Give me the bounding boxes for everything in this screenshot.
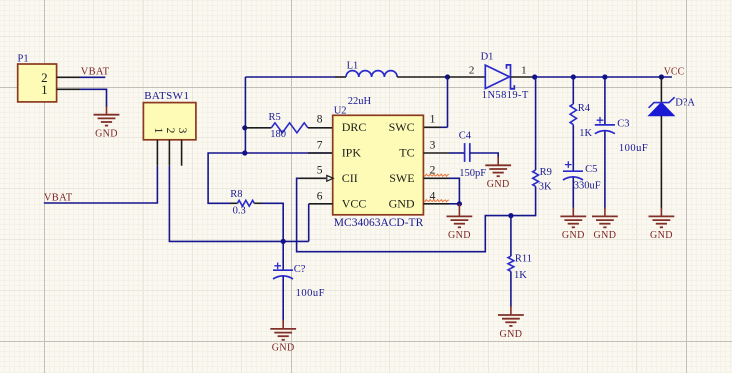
svg-text:1K: 1K	[514, 270, 527, 281]
wire left rail vertical	[244, 77, 246, 153]
svg-text:U2: U2	[334, 105, 347, 116]
wire net VBAT to BATSW1 pin 1	[44, 166, 157, 203]
svg-text:GND: GND	[95, 129, 118, 140]
svg-text:7: 7	[317, 139, 323, 151]
svg-text:8: 8	[317, 114, 323, 126]
svg-text:P1: P1	[18, 54, 29, 65]
svg-text:SWC: SWC	[389, 120, 415, 134]
no-ERC squiggle on pin 2	[424, 174, 449, 176]
svg-text:1: 1	[41, 82, 48, 97]
wire VCC rail down to R9	[535, 77, 537, 170]
wire net VBAT from P1 pin 2	[80, 76, 105, 78]
svg-text:VBAT: VBAT	[44, 192, 73, 203]
svg-text:R5: R5	[269, 112, 281, 123]
L1 left pin stub	[335, 76, 346, 78]
BATSW1 pin 2 stub	[168, 140, 170, 166]
switch BATSW1	[143, 103, 196, 140]
svg-text:VCC: VCC	[664, 66, 685, 77]
svg-text:GND: GND	[389, 197, 415, 211]
svg-text:6: 6	[317, 190, 323, 202]
svg-text:BATSW1: BATSW1	[144, 90, 189, 102]
capacitor C3	[595, 124, 615, 126]
diode D?A (zener, filled)	[649, 103, 675, 116]
resistor R11	[508, 256, 514, 271]
wire R11 to ground	[510, 271, 512, 307]
svg-text:5: 5	[317, 165, 323, 177]
wire C4 to ground	[470, 153, 498, 158]
D1 anode pin wire	[448, 76, 486, 78]
resistor R8	[230, 202, 237, 204]
svg-text:SWE: SWE	[389, 171, 414, 185]
wire BATSW1 pin 2 down to VBAT switched rail	[169, 166, 308, 242]
svg-text:1: 1	[152, 128, 164, 134]
wire R9 bottom to CII node	[535, 186, 537, 215]
ground symbol at C?	[270, 329, 296, 340]
svg-text:3: 3	[430, 139, 436, 151]
svg-text:DRC: DRC	[342, 120, 367, 134]
svg-text:VBAT: VBAT	[81, 67, 110, 78]
wire top rail from left corner to L1	[245, 76, 335, 78]
svg-text:R9: R9	[540, 167, 552, 178]
svg-text:CII: CII	[342, 171, 358, 185]
wire junction down to C?	[282, 241, 284, 270]
connector P1	[18, 64, 57, 102]
svg-text:D?A: D?A	[675, 97, 695, 108]
ground symbol at D?A	[649, 216, 675, 227]
junction at L1/D1/SWC node	[445, 74, 450, 79]
BATSW1 pin 3 stub (unconnected)	[181, 140, 183, 166]
wire U2 pin 6 to VBAT switched rail	[308, 204, 310, 242]
svg-text:GND: GND	[448, 230, 471, 241]
svg-text:1N5819-T: 1N5819-T	[482, 90, 529, 101]
svg-text:C?: C?	[294, 264, 306, 275]
wire C3 to ground	[604, 131, 606, 208]
svg-text:TC: TC	[399, 146, 414, 160]
svg-text:22uH: 22uH	[348, 96, 372, 107]
svg-text:0.3: 0.3	[233, 205, 246, 216]
D?A anode pin wire	[660, 116, 662, 209]
wire CII pin 5 to R9/R11 node	[297, 178, 537, 251]
svg-text:VCC: VCC	[342, 197, 367, 211]
svg-text:1K: 1K	[579, 128, 592, 139]
junction at R5 left	[242, 125, 247, 130]
wire R4 to C5	[572, 125, 574, 172]
wire C5 to ground	[572, 178, 574, 209]
svg-text:2: 2	[469, 64, 475, 76]
capacitor C?	[273, 269, 293, 271]
U2 pin 5 stub	[299, 177, 326, 179]
svg-text:GND: GND	[650, 230, 673, 241]
D1 cathode pin wire	[511, 76, 535, 78]
svg-text:GND: GND	[593, 230, 616, 241]
wire pin 3 to C4	[449, 152, 465, 154]
junction at R4 top	[571, 74, 576, 79]
D?A cathode pin wire	[660, 77, 662, 103]
P1 pin 2 stub	[57, 76, 80, 78]
junction at D?A top	[659, 74, 664, 79]
wire SWC pin 1 up to rail	[447, 77, 449, 127]
svg-text:GND: GND	[487, 179, 510, 190]
diode D1 (Schottky)	[485, 65, 509, 88]
wire R8 to junction	[262, 203, 283, 241]
wire P1 pin 1 to ground	[80, 89, 107, 107]
U2 pin 1 stub	[423, 126, 441, 128]
junction at C? top node	[281, 239, 286, 244]
ground symbol at U2 pin 4	[447, 216, 473, 227]
svg-text:1: 1	[521, 64, 527, 76]
wire VCC rail down to C3	[604, 77, 606, 125]
wire C? to ground	[282, 277, 284, 322]
svg-text:MC34063ACD-TR: MC34063ACD-TR	[334, 217, 424, 229]
ground symbol at R11	[498, 315, 524, 326]
U2 pin 4 stub	[423, 203, 449, 205]
U2 pin 6 stub	[309, 203, 333, 205]
resistor R4	[570, 104, 576, 125]
capacitor C5	[563, 170, 583, 172]
svg-text:C3: C3	[617, 118, 629, 129]
svg-text:R11: R11	[515, 253, 532, 264]
ground symbol at C5	[560, 216, 586, 227]
svg-text:GND: GND	[272, 343, 295, 354]
wire SWE pin 2 to GND pin 4	[449, 178, 459, 204]
U2 pin 7 stub	[308, 152, 333, 154]
svg-text:C4: C4	[459, 130, 472, 141]
ground symbol at C3	[592, 216, 618, 227]
ground symbol at C4	[485, 165, 511, 176]
svg-text:3K: 3K	[539, 181, 552, 192]
svg-text:R4: R4	[578, 103, 591, 114]
U2 pin 2 stub	[423, 177, 449, 179]
svg-text:100uF: 100uF	[296, 288, 325, 299]
resistor R5	[245, 127, 271, 129]
input symbol on pin 5	[327, 175, 333, 181]
svg-text:IPK: IPK	[342, 146, 362, 160]
svg-text:100uF: 100uF	[619, 143, 648, 154]
U2 pin 3 stub	[423, 152, 449, 154]
ground symbol at P1	[94, 115, 120, 126]
junction at D1 cathode / VCC rail	[532, 74, 537, 79]
wire junction down to R11	[510, 216, 512, 257]
svg-text:2: 2	[164, 128, 176, 134]
U2 pin 8 stub	[308, 127, 333, 129]
svg-text:GND: GND	[562, 230, 585, 241]
svg-text:150pF: 150pF	[459, 168, 486, 179]
inductor L1	[346, 71, 397, 77]
svg-text:1: 1	[430, 114, 436, 126]
svg-text:D1: D1	[481, 51, 494, 62]
svg-text:180: 180	[270, 129, 286, 140]
BATSW1 pin 1 stub	[156, 140, 158, 166]
L1 right pin stub	[397, 76, 447, 78]
P1 pin 1 stub	[57, 88, 80, 90]
junction at R11 top	[508, 213, 513, 218]
svg-text:C5: C5	[585, 164, 597, 175]
junction at C3 top	[602, 74, 607, 79]
svg-text:R8: R8	[230, 189, 242, 200]
svg-text:GND: GND	[499, 329, 522, 340]
wire VCC rail down to R4	[572, 77, 574, 104]
junction at U2 GND pin	[457, 201, 462, 206]
svg-text:L1: L1	[347, 61, 359, 72]
op-amp U2 MC34063ACD-TR body	[333, 115, 424, 215]
svg-text:3: 3	[176, 128, 188, 134]
capacitor C4	[464, 143, 466, 162]
wire VCC rail	[535, 76, 672, 78]
svg-text:330uF: 330uF	[574, 180, 601, 191]
resistor R9	[533, 170, 539, 186]
no-ERC squiggle on pin 4	[424, 200, 449, 202]
wire IPK pin 7 to R8	[208, 153, 333, 203]
wire pin 4 to junction	[449, 203, 459, 205]
junction on pin 7 wire	[242, 150, 247, 155]
